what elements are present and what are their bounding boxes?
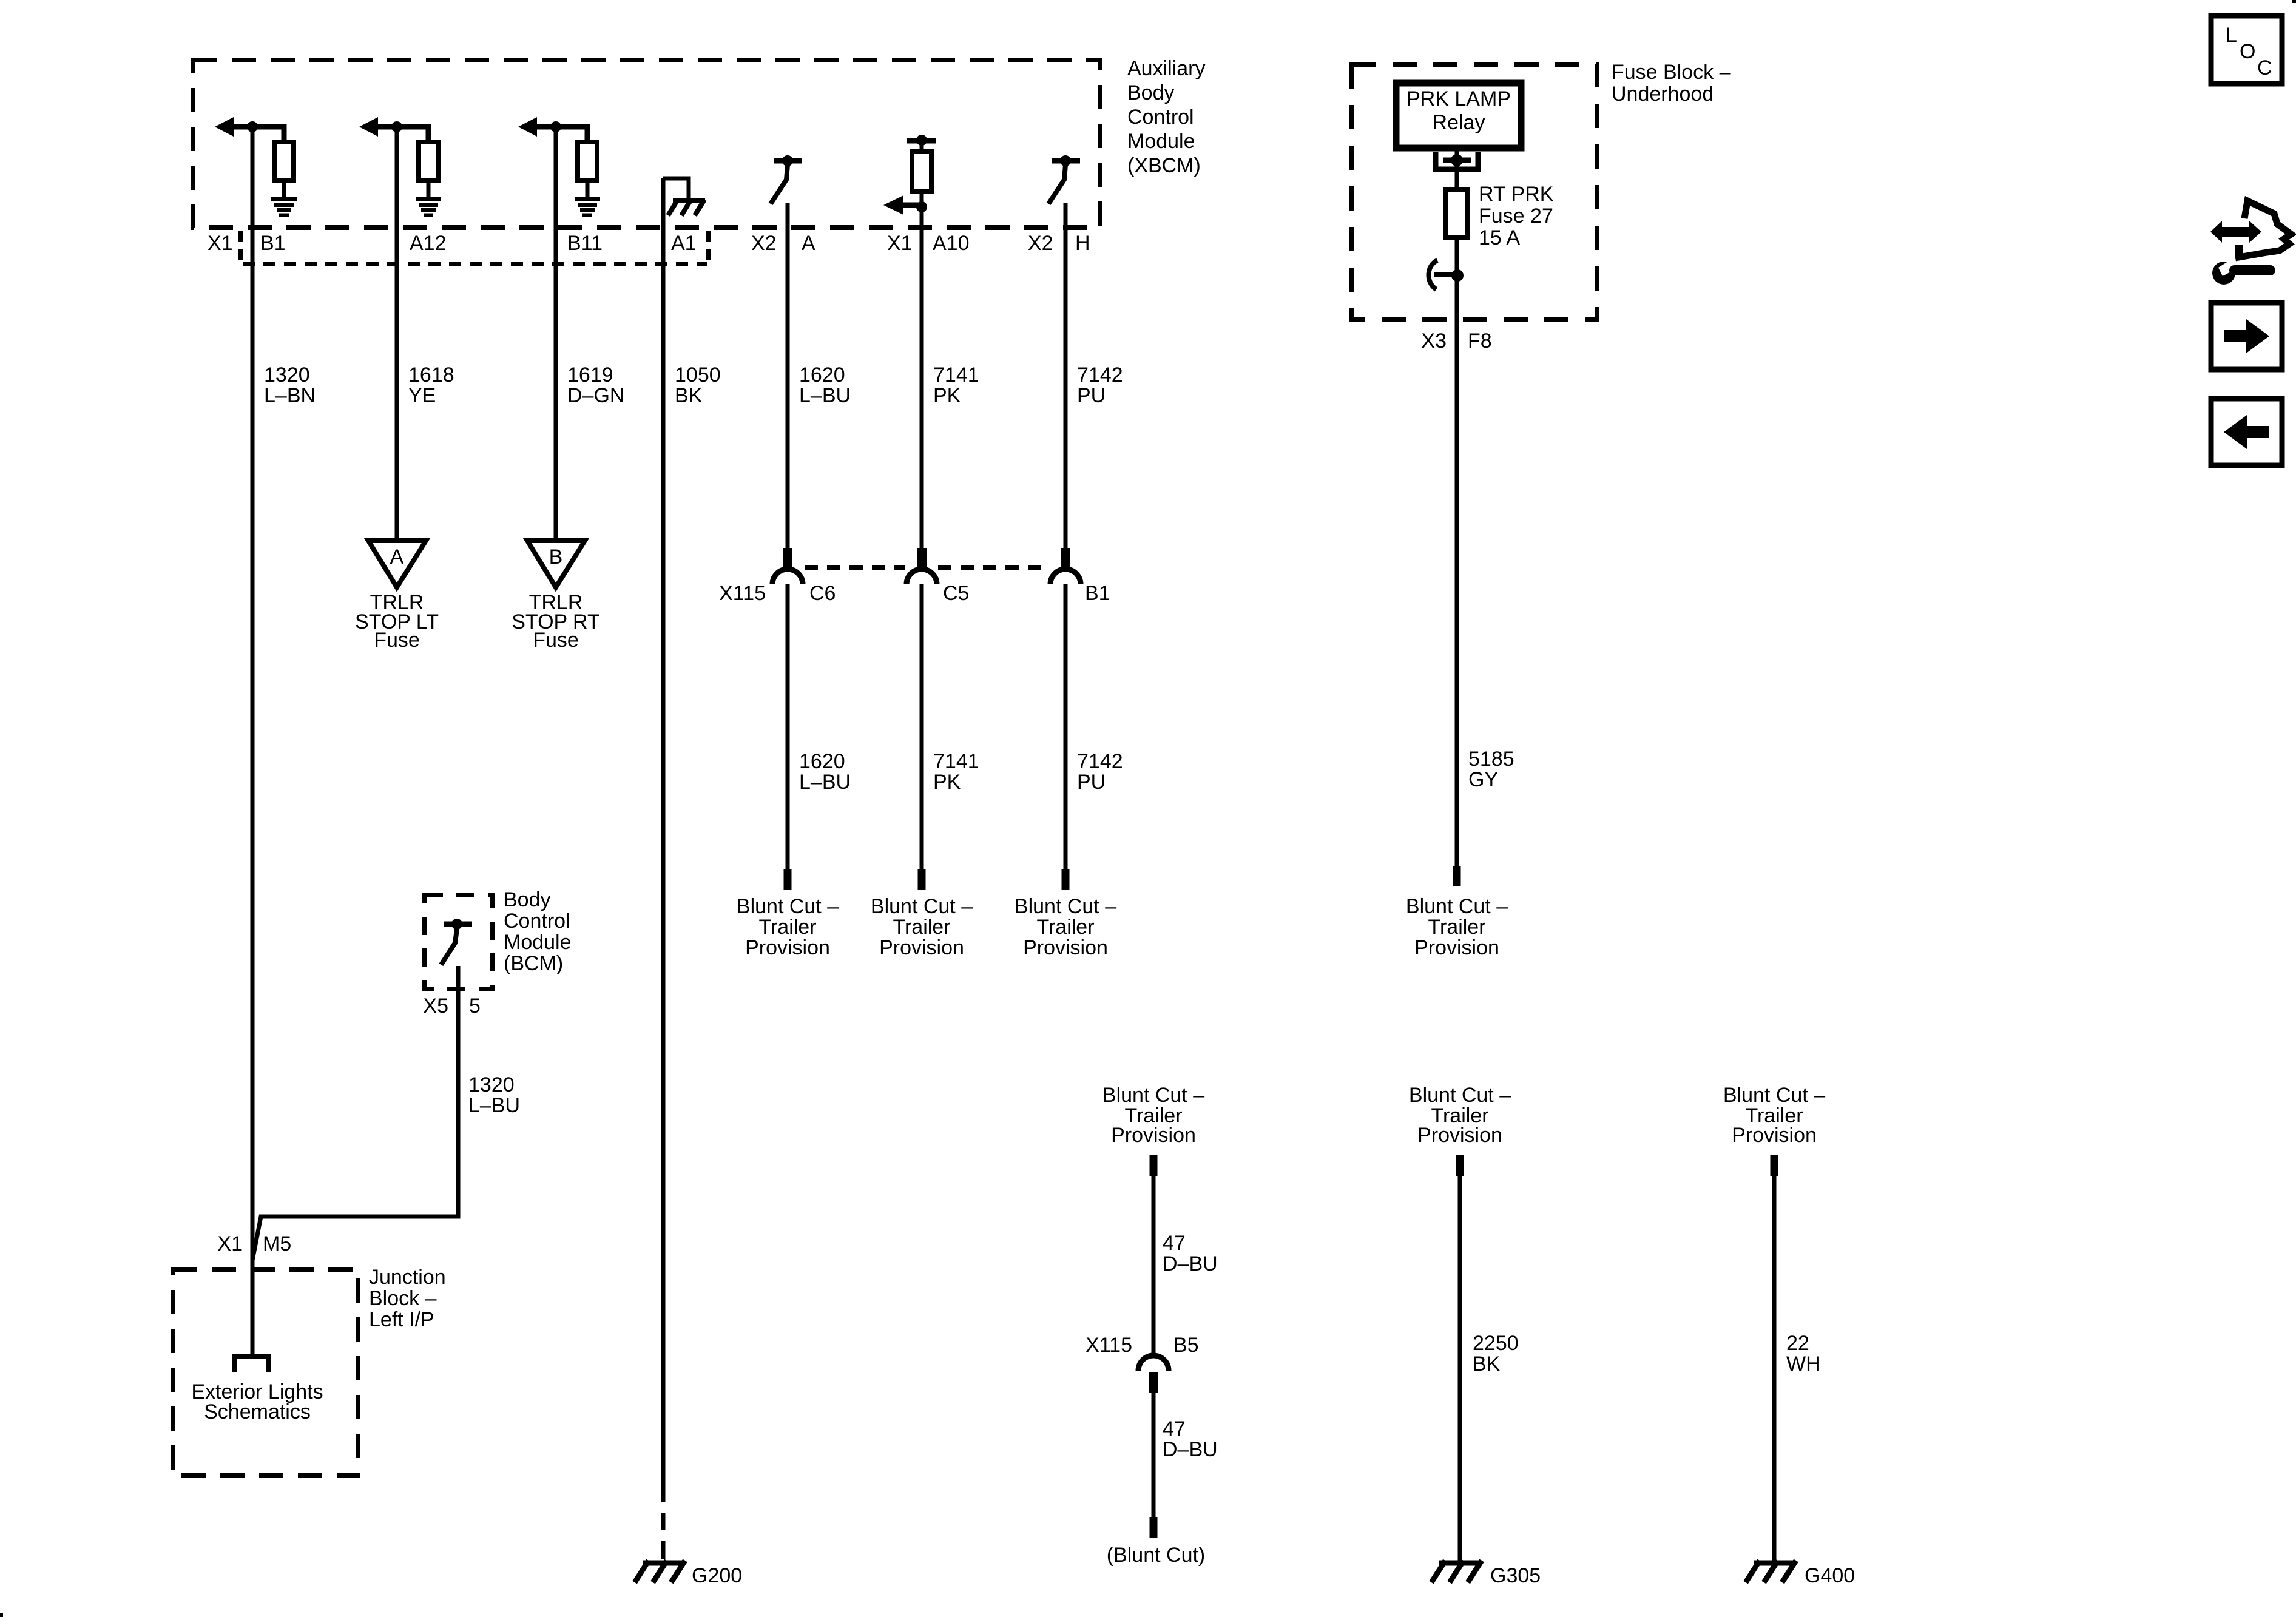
svg-text:1618: 1618 [408,363,454,387]
svg-text:D–GN: D–GN [567,384,624,407]
connector X115 dashed links [805,565,1049,570]
svg-text:7141: 7141 [933,750,979,773]
module BCM dashed box (Body Control Module) [425,895,493,989]
svg-text:Blunt Cut –: Blunt Cut – [1015,895,1116,918]
connector X115 pin B5 [1086,1334,1198,1371]
wire 7142 PU below X115 to blunt cut [1015,584,1123,959]
svg-text:X3: X3 [1421,329,1447,353]
svg-text:A12: A12 [410,232,447,255]
svg-text:Auxiliary: Auxiliary [1127,57,1205,80]
svg-text:H: H [1075,232,1090,255]
svg-text:PK: PK [933,771,961,794]
svg-text:Provision: Provision [1023,936,1108,959]
svg-text:O: O [2240,40,2255,63]
wire 47 D-BU upper segment [1150,1155,1218,1355]
svg-text:B11: B11 [567,232,603,255]
svg-text:B5: B5 [1173,1334,1199,1357]
svg-text:47: 47 [1163,1232,1186,1255]
relay output bracket and junction [1436,152,1478,169]
svg-text:PK: PK [933,384,961,407]
svg-text:7142: 7142 [1077,363,1123,387]
blunt cut trailer provision label column 2250 BK [1409,1084,1511,1147]
svg-text:GY: GY [1468,768,1498,791]
wire 22 WH to G400 [1771,1155,1821,1561]
wire labels circuit numbers top [264,363,1123,407]
svg-text:A10: A10 [933,232,970,255]
svg-text:Junction: Junction [369,1266,446,1289]
svg-text:Provision: Provision [879,936,964,959]
svg-text:7141: 7141 [933,363,979,387]
svg-text:Fuse 27: Fuse 27 [1479,204,1553,228]
svg-text:B: B [549,545,563,569]
svg-text:L: L [2226,24,2237,47]
svg-text:A: A [802,232,815,255]
module XBCM dashed box (Auxiliary Body Control Module) [193,60,1100,228]
wire 7142 PU from XBCM X2 H [1064,203,1068,549]
wire 1050 BK from XBCM A1 [661,178,666,1484]
svg-text:5: 5 [469,994,481,1018]
wire 1320 L-BU from BCM X5 5 [252,966,458,1260]
icon forward arrow box [2211,303,2282,370]
svg-text:X5: X5 [423,994,448,1018]
svg-text:RT PRK: RT PRK [1479,183,1554,206]
svg-text:Body: Body [504,888,551,911]
svg-text:Provision: Provision [745,936,830,959]
svg-text:1620: 1620 [799,750,845,773]
svg-text:Provision: Provision [1111,1124,1196,1147]
svg-text:B1: B1 [260,232,286,255]
label Junction Block Left I/P [369,1266,446,1331]
svg-text:Fuse: Fuse [533,629,579,652]
pin labels X5 5 BCM [423,994,481,1018]
svg-text:Module: Module [1127,130,1195,153]
svg-text:Blunt Cut –: Blunt Cut – [1406,895,1508,918]
svg-text:1320: 1320 [264,363,310,387]
label Fuse Block Underhood [1612,61,1731,106]
svg-text:Left I/P: Left I/P [369,1308,434,1331]
wire 1620 L-BU from XBCM X2 A [786,203,790,549]
signal arrow and resistor to ground, XBCM output A12 [359,117,441,215]
svg-text:Body: Body [1127,81,1175,104]
svg-text:X2: X2 [1028,232,1053,255]
svg-text:Module: Module [504,931,572,954]
page corner marks [2292,0,2296,3]
label X115 connector row [719,582,1110,605]
svg-text:Fuse Block –: Fuse Block – [1612,61,1731,84]
svg-text:C6: C6 [809,582,836,605]
connector X115 pin B1 half-circle and terminal [1050,548,1081,584]
svg-text:Trailer: Trailer [893,916,950,939]
wire 1320 L-BN from XBCM B1 [251,127,255,1355]
svg-text:A: A [390,545,404,569]
wire relay to fuse [1455,151,1459,190]
blunt cut terminal 5185 GY [1406,866,1508,959]
svg-text:X115: X115 [1086,1334,1132,1357]
wire label 1320 L-BU [468,1073,520,1117]
fuse symbol triangle B TRLR STOP RT [512,541,600,652]
label XBCM name [1127,57,1205,177]
svg-text:G400: G400 [1805,1564,1855,1587]
svg-text:Control: Control [504,910,570,933]
label BCM name [504,888,572,975]
svg-text:1619: 1619 [567,363,613,387]
svg-text:D–BU: D–BU [1163,1438,1218,1461]
bracket to Exterior Lights Schematics [234,1357,269,1372]
svg-text:Blunt Cut –: Blunt Cut – [737,895,839,918]
svg-text:Trailer: Trailer [1036,916,1094,939]
svg-text:G305: G305 [1490,1564,1541,1587]
connector X115 pin C6 half-circle and terminal [772,548,803,584]
svg-text:Block –: Block – [369,1287,437,1310]
svg-text:Blunt Cut –: Blunt Cut – [1409,1084,1511,1107]
svg-text:PU: PU [1077,771,1106,794]
resistor with sense arrow, XBCM pin X1 A10 [883,135,936,215]
module Junction Block Left I/P dashed box [173,1269,358,1476]
pin labels X1 M5 junction block [217,1232,291,1255]
switch inside BCM [441,919,472,965]
svg-text:F8: F8 [1468,329,1492,353]
wire 7141 PK from XBCM X1 A10 [920,207,924,549]
svg-text:X1: X1 [208,232,233,255]
svg-text:5185: 5185 [1468,748,1514,771]
svg-text:YE: YE [408,384,436,407]
svg-text:Underhood: Underhood [1612,83,1714,106]
ground G200 chassis symbol [635,1561,685,1582]
svg-text:L–BU: L–BU [468,1094,520,1117]
label Exterior Lights Schematics [191,1380,323,1423]
svg-text:Trailer: Trailer [1428,916,1485,939]
svg-text:Trailer: Trailer [758,916,816,939]
icon double arrow with wrench (schematic navigation) [2210,201,2291,285]
svg-text:(Blunt Cut): (Blunt Cut) [1107,1544,1206,1567]
blunt cut trailer provision label column 47 D-BU [1102,1084,1204,1147]
svg-text:Provision: Provision [1414,936,1499,959]
svg-text:C5: C5 [943,582,969,605]
icon LOC box [2211,16,2282,84]
wire 1618 YE from XBCM A12 [395,127,399,542]
svg-text:1050: 1050 [675,363,721,387]
svg-text:M5: M5 [263,1232,291,1255]
wire dashed to G200 [661,1484,666,1561]
blunt cut trailer provision label column 22 WH [1723,1084,1825,1147]
svg-text:Provision: Provision [1417,1124,1502,1147]
ground G400 chassis symbol [1746,1561,1796,1582]
connector X1 dotted outline under XBCM [241,231,708,264]
svg-text:(XBCM): (XBCM) [1127,154,1201,177]
connector X115 pin C5 half-circle and terminal [907,548,937,584]
svg-text:Blunt Cut –: Blunt Cut – [871,895,973,918]
wire 2250 BK to G305 [1456,1155,1519,1561]
clip connector symbol on fuse output [1428,260,1464,289]
svg-text:L–BU: L–BU [799,384,851,407]
switch, XBCM output X2 pin A [771,155,802,204]
wire 1620 L&#8211;BU below X115 to blunt cut [737,584,851,959]
svg-text:Control: Control [1127,106,1194,129]
svg-text:L–BN: L–BN [264,384,316,407]
svg-text:BK: BK [1473,1352,1501,1376]
icon back arrow box [2211,399,2282,465]
svg-text:X1: X1 [217,1232,243,1255]
fuse RT PRK Fuse 27 15A [1446,187,1468,238]
svg-text:BK: BK [675,384,703,407]
svg-text:B1: B1 [1085,582,1110,605]
wire fuse down through clip [1455,238,1459,866]
svg-text:2250: 2250 [1473,1332,1519,1355]
svg-text:WH: WH [1786,1352,1821,1376]
relay PRK LAMP Relay box [1396,83,1521,148]
module Fuse Block Underhood dashed box [1352,64,1597,319]
svg-text:1620: 1620 [799,363,845,387]
label RT PRK Fuse 27 15 A [1479,183,1554,249]
signal arrow and resistor to ground, XBCM output B1 [215,117,297,215]
svg-text:D–BU: D–BU [1163,1252,1218,1275]
svg-text:X115: X115 [719,582,766,605]
pin labels XBCM connectors [208,232,1090,255]
svg-text:7142: 7142 [1077,750,1123,773]
wire 47 D-BU lower segment to blunt cut [1107,1372,1218,1567]
svg-text:1320: 1320 [468,1073,515,1096]
svg-text:47: 47 [1163,1417,1186,1440]
svg-text:X2: X2 [751,232,777,255]
svg-text:G200: G200 [692,1564,742,1587]
svg-text:15 A: 15 A [1479,226,1520,249]
svg-text:Blunt Cut –: Blunt Cut – [1723,1084,1825,1107]
svg-text:22: 22 [1786,1332,1809,1355]
svg-text:X1: X1 [887,232,913,255]
pin labels X3 F8 fuse block [1421,329,1491,353]
wire 7141 PK below X115 to blunt cut [871,584,979,959]
svg-text:PU: PU [1077,384,1106,407]
ground G305 chassis symbol [1431,1561,1482,1582]
svg-text:L–BU: L–BU [799,771,851,794]
svg-text:C: C [2257,56,2272,79]
svg-text:Relay: Relay [1433,111,1485,134]
wire label 5185 GY [1468,748,1514,791]
svg-text:A1: A1 [671,232,697,255]
svg-text:PRK LAMP: PRK LAMP [1406,87,1511,110]
svg-text:Schematics: Schematics [204,1400,311,1423]
switch, XBCM output X2 pin H [1048,155,1080,204]
signal arrow and resistor to ground, XBCM output B11 [518,117,600,215]
svg-text:Fuse: Fuse [374,629,420,652]
svg-text:Blunt Cut –: Blunt Cut – [1102,1084,1204,1107]
ground, XBCM internal chassis ground at pin A1 [663,178,705,215]
fuse symbol triangle A TRLR STOP LT [355,541,439,652]
svg-text:Provision: Provision [1732,1124,1817,1147]
svg-text:(BCM): (BCM) [504,952,563,975]
wire 1619 D-GN from XBCM B11 [554,127,558,542]
